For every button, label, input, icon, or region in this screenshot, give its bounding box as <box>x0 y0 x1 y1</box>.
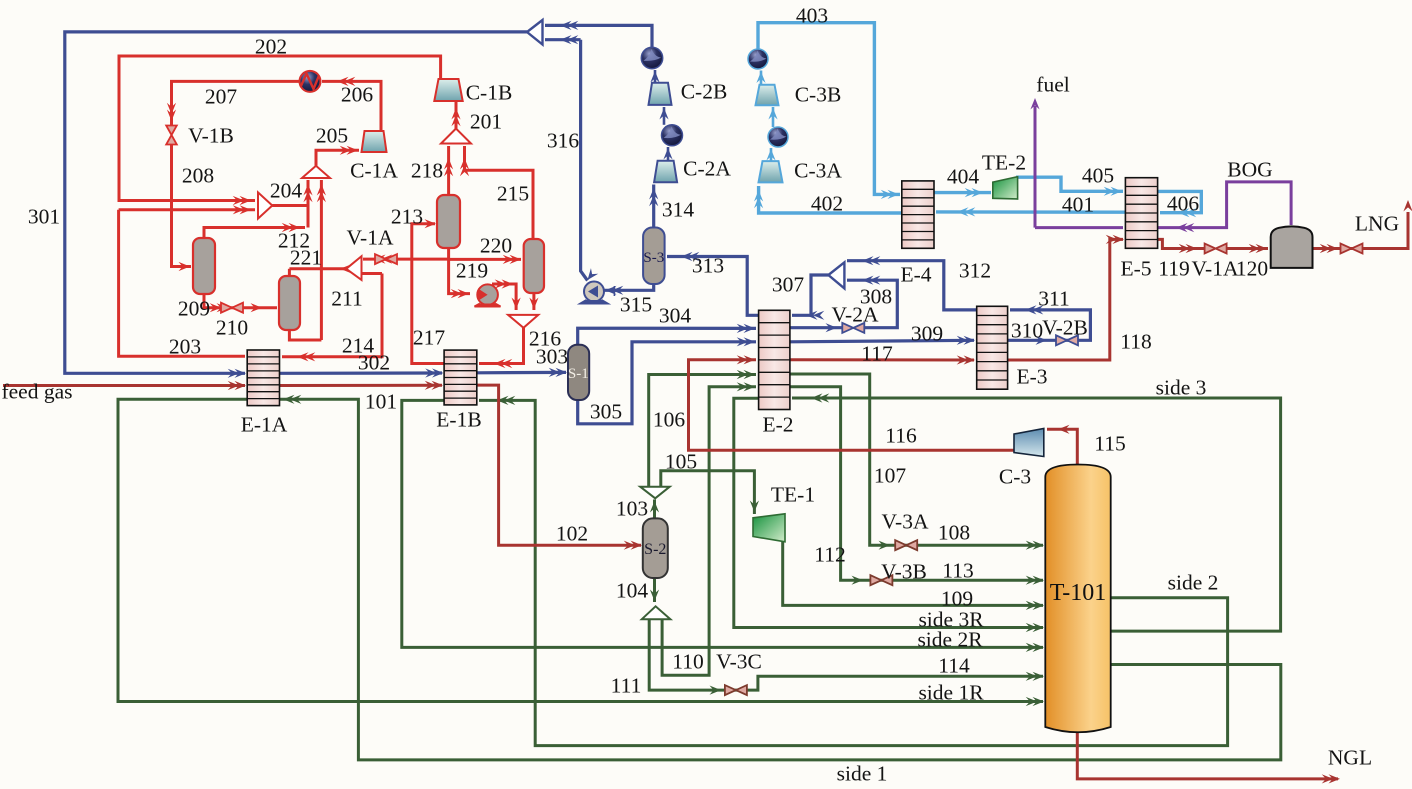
svg-text:213: 213 <box>391 205 423 229</box>
svg-text:102: 102 <box>556 522 588 546</box>
svg-text:LNG: LNG <box>1355 212 1399 236</box>
svg-text:C-3A: C-3A <box>794 159 842 183</box>
svg-text:S-2: S-2 <box>644 541 666 558</box>
svg-text:208: 208 <box>182 164 214 188</box>
svg-text:310: 310 <box>1011 319 1043 343</box>
svg-text:117: 117 <box>861 342 893 366</box>
svg-text:E-2: E-2 <box>762 413 793 437</box>
svg-text:E-3: E-3 <box>1016 365 1047 389</box>
svg-text:V-1B: V-1B <box>188 124 234 148</box>
svg-text:S-3: S-3 <box>643 250 664 266</box>
svg-text:313: 313 <box>692 254 724 278</box>
svg-text:111: 111 <box>611 674 642 698</box>
svg-text:114: 114 <box>938 654 970 678</box>
svg-text:112: 112 <box>814 543 845 567</box>
svg-text:E-1B: E-1B <box>436 408 481 432</box>
svg-text:115: 115 <box>1094 432 1125 456</box>
svg-text:T-101: T-101 <box>1050 580 1106 606</box>
svg-text:106: 106 <box>653 408 686 432</box>
svg-text:NGL: NGL <box>1328 746 1372 770</box>
svg-text:side 2R: side 2R <box>917 628 983 652</box>
svg-text:215: 215 <box>497 182 529 206</box>
svg-text:201: 201 <box>470 110 502 134</box>
svg-text:209: 209 <box>178 297 210 321</box>
svg-text:303: 303 <box>536 345 568 369</box>
svg-text:219: 219 <box>456 259 488 283</box>
svg-text:E-4: E-4 <box>900 263 931 287</box>
svg-text:TE-2: TE-2 <box>982 151 1026 175</box>
svg-text:311: 311 <box>1038 287 1069 311</box>
svg-text:101: 101 <box>365 390 397 414</box>
svg-text:118: 118 <box>1120 330 1151 354</box>
svg-text:206: 206 <box>341 83 374 107</box>
svg-text:V-1A: V-1A <box>1192 257 1239 281</box>
svg-text:120: 120 <box>1236 257 1268 281</box>
svg-text:402: 402 <box>811 192 843 216</box>
svg-text:113: 113 <box>942 559 973 583</box>
svg-text:107: 107 <box>874 464 907 488</box>
svg-text:309: 309 <box>911 322 943 346</box>
svg-text:207: 207 <box>205 85 238 109</box>
svg-text:S-1: S-1 <box>568 366 589 382</box>
svg-text:TE-1: TE-1 <box>771 483 815 507</box>
svg-text:C-1A: C-1A <box>350 159 398 183</box>
svg-text:217: 217 <box>413 326 446 350</box>
svg-text:C-2B: C-2B <box>681 80 728 104</box>
svg-text:side 3: side 3 <box>1156 376 1207 400</box>
svg-text:C-2A: C-2A <box>683 157 731 181</box>
svg-text:203: 203 <box>169 335 201 359</box>
svg-text:V-1A: V-1A <box>347 226 394 250</box>
svg-text:210: 210 <box>216 316 248 340</box>
svg-text:211: 211 <box>331 287 362 311</box>
svg-text:221: 221 <box>290 246 322 270</box>
svg-text:103: 103 <box>616 497 648 521</box>
svg-text:V-3B: V-3B <box>881 560 927 584</box>
svg-text:side 2: side 2 <box>1168 571 1219 595</box>
svg-text:119: 119 <box>1158 257 1189 281</box>
svg-text:side 1R: side 1R <box>918 681 984 705</box>
svg-text:218: 218 <box>411 159 443 183</box>
svg-text:205: 205 <box>316 124 348 148</box>
svg-text:104: 104 <box>616 579 649 603</box>
svg-text:C-1B: C-1B <box>466 81 513 105</box>
svg-text:feed gas: feed gas <box>1 380 72 404</box>
svg-text:314: 314 <box>662 198 695 222</box>
svg-text:302: 302 <box>358 351 390 375</box>
svg-text:V-3C: V-3C <box>716 650 762 674</box>
svg-text:108: 108 <box>938 521 970 545</box>
svg-text:401: 401 <box>1062 193 1094 217</box>
svg-text:V-2B: V-2B <box>1042 316 1088 340</box>
svg-text:BOG: BOG <box>1227 158 1272 182</box>
svg-text:220: 220 <box>480 234 512 258</box>
svg-text:405: 405 <box>1082 164 1114 188</box>
svg-text:315: 315 <box>620 293 652 317</box>
svg-text:316: 316 <box>547 129 580 153</box>
svg-text:301: 301 <box>28 205 60 229</box>
svg-text:V-2A: V-2A <box>832 303 879 327</box>
svg-text:E-1A: E-1A <box>241 413 288 437</box>
svg-text:E-5: E-5 <box>1120 257 1151 281</box>
svg-text:312: 312 <box>959 259 991 283</box>
svg-text:110: 110 <box>672 650 703 674</box>
svg-text:V-3A: V-3A <box>882 510 929 534</box>
svg-text:403: 403 <box>796 4 828 28</box>
svg-text:307: 307 <box>772 273 805 297</box>
svg-text:404: 404 <box>947 165 980 189</box>
svg-text:fuel: fuel <box>1036 73 1069 97</box>
svg-text:204: 204 <box>270 179 303 203</box>
svg-text:304: 304 <box>659 304 692 328</box>
svg-text:side 1: side 1 <box>837 762 888 786</box>
svg-text:C-3B: C-3B <box>795 83 842 107</box>
svg-text:406: 406 <box>1167 192 1200 216</box>
svg-text:C-3: C-3 <box>999 465 1031 489</box>
svg-text:105: 105 <box>665 450 697 474</box>
svg-text:202: 202 <box>255 35 287 59</box>
svg-text:116: 116 <box>885 424 917 448</box>
svg-text:305: 305 <box>590 400 622 424</box>
